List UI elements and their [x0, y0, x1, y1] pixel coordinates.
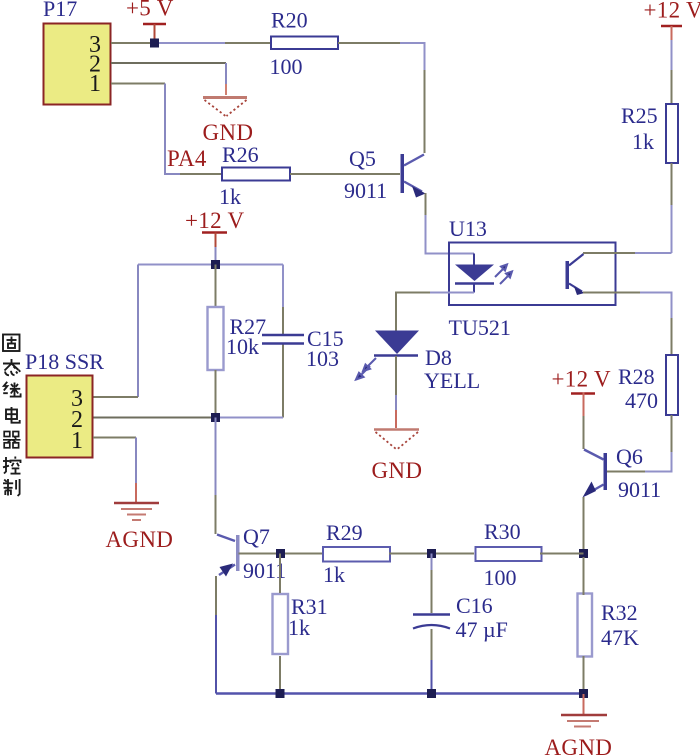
resistor R28 [666, 355, 678, 415]
connector P18 [27, 376, 93, 458]
wire R27 bottom to node [215, 370, 217, 417]
svg-text:100: 100 [484, 565, 517, 590]
D8 light arrows [356, 358, 376, 380]
transistor Q7 [217, 524, 286, 583]
svg-text:10k: 10k [226, 334, 259, 359]
text 器 (hand-drawn) [3, 432, 21, 448]
wire R32 bottom [583, 656, 585, 694]
wire P17 pin2 to GND [111, 62, 226, 64]
svg-text:R32: R32 [601, 600, 638, 625]
svg-text:PA4: PA4 [167, 146, 207, 171]
connector P17 [44, 24, 111, 105]
svg-text:R28: R28 [618, 364, 655, 389]
ground AGND symbol bottom right [561, 715, 607, 727]
svg-text:+5 V: +5 V [126, 0, 174, 21]
transistor Q5 [344, 146, 426, 203]
svg-text:P17: P17 [43, 0, 77, 21]
junction rail R32 [579, 689, 588, 698]
U13 LED light arrows [495, 265, 512, 285]
wire P17 pin3 to R20 [111, 42, 152, 44]
wire +12V to R25 [671, 26, 673, 40]
svg-text:R26: R26 [222, 142, 259, 167]
text 电 (hand-drawn) [6, 407, 20, 423]
diode D8 LED [374, 331, 480, 394]
capacitor C16 [413, 554, 508, 643]
svg-text:100: 100 [270, 54, 303, 79]
resistor R31 [273, 594, 289, 654]
junction Q6 emitter node [579, 549, 588, 558]
svg-text:R25: R25 [621, 103, 658, 128]
svg-text:+12 V: +12 V [185, 208, 245, 233]
svg-text:+12 V: +12 V [552, 367, 612, 392]
wire rail to R27 top [215, 265, 217, 308]
wire R20 to Q5 collector corner [338, 42, 400, 44]
wire bottom rail [216, 692, 584, 694]
wire R25 to opto collector [671, 163, 673, 205]
wire rail down to P18 pin3 [137, 265, 139, 398]
wire node down to Q7 collector [215, 418, 217, 496]
wire Q7 emitter to bottom rail [215, 576, 217, 615]
svg-text:103: 103 [306, 346, 339, 371]
svg-text:1: 1 [71, 428, 83, 454]
ground GND symbol under D8 [374, 430, 419, 450]
text 继 (hand-drawn) [3, 382, 20, 397]
svg-text:1k: 1k [632, 129, 654, 154]
opto-coupler U13 box [449, 243, 616, 306]
svg-text:Q7: Q7 [243, 524, 270, 549]
wire C15 branch vertical [282, 265, 284, 308]
svg-text:470: 470 [625, 388, 658, 413]
svg-text:D8: D8 [425, 345, 452, 370]
power +5 V stem [154, 24, 156, 41]
resistor R20 [271, 37, 338, 50]
svg-text:Q6: Q6 [616, 444, 643, 469]
svg-text:R29: R29 [326, 520, 363, 545]
svg-text:R30: R30 [484, 519, 521, 544]
resistor R27 [208, 307, 224, 370]
power +12 V bar top right [661, 25, 682, 28]
svg-text:47K: 47K [601, 625, 639, 650]
svg-text:R20: R20 [271, 8, 308, 33]
text 固 (hand-drawn) [3, 335, 20, 352]
ground GND symbol top [203, 98, 247, 117]
svg-text:YELL: YELL [424, 368, 480, 393]
wire +12V stem to rail [215, 233, 217, 248]
capacitor C15 [262, 334, 304, 337]
text 控 (hand-drawn) [3, 457, 21, 474]
power +12 V bar for Q6 [571, 392, 595, 395]
svg-text:C16: C16 [456, 593, 493, 618]
wire Q5 emitter down to U13 LED [425, 193, 427, 215]
resistor R32 [578, 594, 593, 657]
ground AGND stem bottom right [583, 694, 585, 714]
wire +12V to Q6 collector [583, 393, 585, 417]
junction C16 top node [427, 549, 436, 558]
svg-text:1k: 1k [323, 562, 345, 587]
wire Q7 base to R29 [239, 553, 325, 555]
wire R31 bottom [279, 656, 281, 694]
svg-text:+12 V: +12 V [644, 0, 700, 23]
resistor R29 [323, 547, 390, 562]
svg-text:P18 SSR: P18 SSR [25, 349, 104, 374]
junction Q7 base node [276, 549, 285, 558]
svg-text:1k: 1k [288, 615, 310, 640]
transistor Q6 [583, 444, 662, 502]
svg-text:1k: 1k [219, 184, 241, 209]
U13 internal LED [455, 254, 494, 293]
svg-text:1: 1 [89, 71, 101, 97]
svg-text:U13: U13 [449, 216, 487, 241]
wire R26 to Q5 base [290, 173, 400, 175]
svg-text:TU521: TU521 [449, 315, 511, 340]
junction rail node [211, 260, 220, 269]
wire R32 top [583, 557, 585, 595]
wire U13 LED cathode to D8 [430, 292, 474, 294]
wire C16 bottom [431, 629, 433, 660]
wire P18 pin1 to AGND [93, 437, 136, 439]
wire R31 top [279, 554, 281, 594]
resistor R25 [666, 104, 678, 163]
wire D8 cathode to GND [395, 356, 397, 395]
wire P17 pin1 down to PA4 net [111, 83, 165, 85]
svg-text:GND: GND [372, 458, 423, 483]
wire opto collector to right column [583, 252, 635, 254]
junction rail C16 [427, 689, 436, 698]
svg-text:Q5: Q5 [349, 146, 376, 171]
junction +5V node [150, 39, 159, 48]
svg-text:9011: 9011 [618, 477, 661, 502]
svg-text:AGND: AGND [545, 735, 613, 756]
text 制 (hand-drawn) [3, 479, 20, 496]
wire R29 to R30 [389, 553, 474, 555]
junction R27 bottom node [211, 413, 220, 422]
resistor R26 [222, 168, 290, 181]
power +5 V bar [143, 23, 166, 26]
wire R28 to Q6 base [671, 415, 673, 452]
svg-text:AGND: AGND [106, 527, 174, 552]
resistor R30 [476, 547, 542, 561]
svg-text:47 µF: 47 µF [456, 617, 508, 642]
svg-text:9011: 9011 [344, 178, 387, 203]
wire R30 to Q6 emitter node [540, 553, 584, 555]
power +12 V bar mid left [202, 231, 227, 234]
wire +12V rail horizontal [138, 264, 283, 266]
ground AGND symbol left [114, 503, 159, 520]
wire P18 pin2 to node [93, 417, 216, 419]
wire opto emitter to R28 [583, 292, 640, 294]
junction rail R31 [276, 689, 285, 698]
text 态 (hand-drawn) [3, 359, 20, 375]
wire Q6 emitter down [583, 497, 585, 554]
U13 phototransistor [566, 254, 585, 295]
